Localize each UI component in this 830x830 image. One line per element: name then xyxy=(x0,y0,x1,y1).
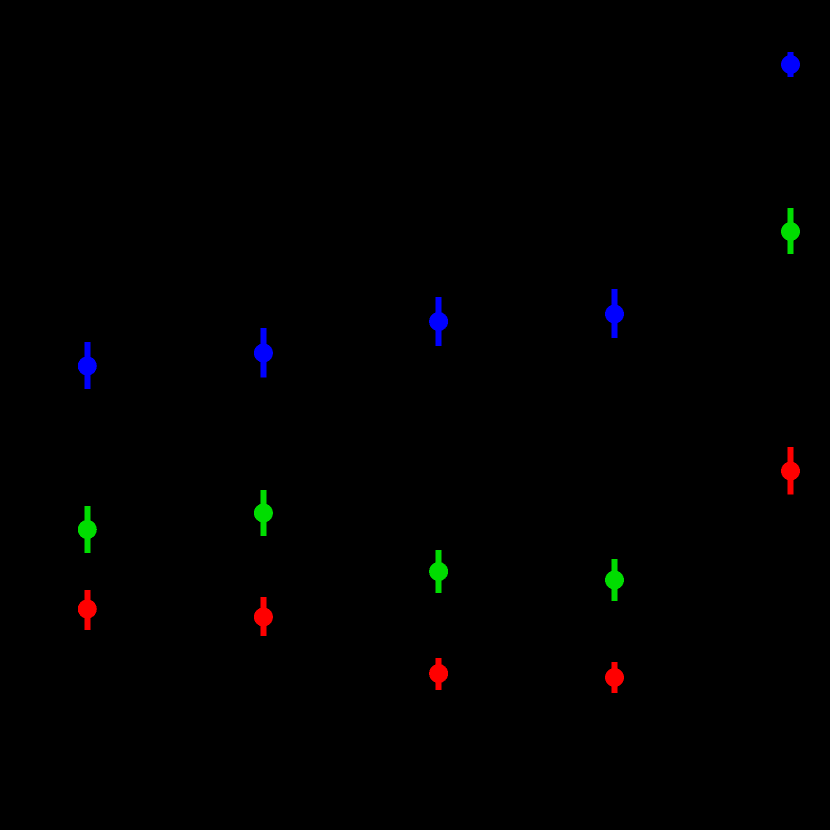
data point blue series, column 4 xyxy=(605,289,624,338)
data point red series, column 1 xyxy=(78,590,97,630)
data point blue series, column 3 xyxy=(429,297,448,346)
data point red series, column 3 xyxy=(429,658,448,690)
data point green series, column 4 xyxy=(605,559,624,601)
data point green series, column 2 xyxy=(254,490,273,536)
data point green series, column 5 xyxy=(781,208,800,254)
data point blue series, column 5 xyxy=(781,52,800,77)
data point red series, column 5 xyxy=(781,447,800,495)
data point green series, column 3 xyxy=(429,550,448,593)
data point red series, column 2 xyxy=(254,597,273,636)
data point blue series, column 2 xyxy=(254,328,273,378)
data point blue series, column 1 xyxy=(78,342,97,389)
data point red series, column 4 xyxy=(605,662,624,693)
data point green series, column 1 xyxy=(78,506,97,553)
